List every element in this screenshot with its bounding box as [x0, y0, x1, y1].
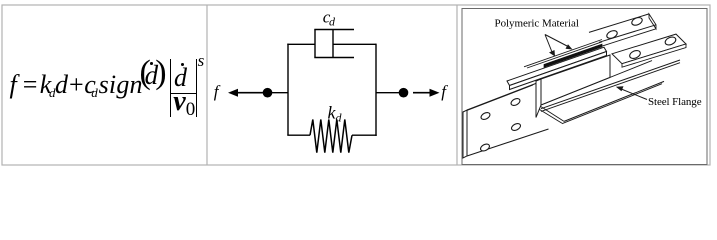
term f	[10, 72, 17, 98]
subscript d of k	[49, 86, 56, 99]
label f right	[441, 82, 448, 101]
absolute-value bar left	[170, 59, 171, 117]
steel flange (T-beam bottom flange)	[537, 60, 681, 124]
center plate edge strip	[527, 42, 602, 68]
svg-text:f: f	[214, 82, 221, 101]
fraction bar	[171, 93, 196, 94]
plus sign	[69, 72, 84, 98]
numerator d-dot	[174, 65, 187, 91]
sign function	[99, 72, 143, 98]
label c_d	[323, 8, 336, 29]
drawing frame	[462, 9, 707, 165]
leader arrow to flange	[616, 86, 647, 99]
svg-text:d: d	[329, 15, 336, 29]
label: Steel Flange	[648, 96, 702, 108]
svg-text:f: f	[441, 82, 448, 101]
wire right rail to node-right	[376, 92, 403, 94]
wire left rail to damper	[287, 43, 315, 45]
denominator v	[173, 88, 185, 116]
denominator subscript 0	[186, 100, 196, 119]
absolute-value bar right	[196, 59, 197, 117]
panel frame and all diagram linework	[0, 0, 717, 172]
spring k_d	[310, 120, 352, 153]
close parenthesis	[155, 56, 166, 90]
lower-right steel plate with 2 holes	[612, 34, 686, 67]
sandwich near outer plate (top face and side)	[507, 47, 607, 89]
web vertical plate front face	[536, 55, 610, 118]
coefficient c	[84, 72, 96, 98]
subscript d of c	[91, 86, 98, 99]
left rail (vertical)	[287, 44, 289, 136]
wire spring to right rail	[352, 134, 377, 136]
leader arrow to far polymer layer	[545, 35, 573, 50]
svg-text:d: d	[336, 111, 343, 125]
right rail (vertical)	[375, 44, 377, 136]
equals sign	[23, 72, 38, 98]
label k_d	[328, 103, 343, 125]
wire node-left to left rail	[267, 92, 288, 94]
separator between schematic cell and drawing cell	[456, 5, 458, 165]
upper steel plate (back) with 2 holes	[589, 14, 656, 47]
damper c_d (dashpot)	[314, 30, 376, 58]
polymeric material layer (far, dark)	[544, 44, 602, 67]
coefficient k	[40, 72, 52, 98]
displacement d	[55, 72, 68, 98]
exponent s	[198, 52, 205, 69]
open parenthesis	[140, 56, 151, 90]
force arrow f left	[228, 89, 263, 97]
outer table border	[2, 5, 710, 165]
d-dot argument	[145, 62, 159, 89]
node right	[399, 88, 409, 98]
label f left	[214, 82, 221, 101]
svg-text:Polymeric Material: Polymeric Material	[495, 18, 579, 30]
polymeric material layer (near, dark)	[538, 48, 602, 74]
label: Polymeric Material	[495, 18, 579, 30]
wire left rail to spring	[287, 134, 310, 136]
left steel plate front face with 4 bolt holes	[463, 83, 549, 158]
force arrow f right	[413, 89, 440, 97]
sandwich back plate top edge (spine)	[524, 40, 602, 67]
leader arrow to near polymer layer	[545, 35, 555, 57]
svg-text:Steel Flange: Steel Flange	[648, 96, 702, 108]
separator between formula cell and schematic cell	[206, 5, 208, 165]
node left	[263, 88, 273, 98]
